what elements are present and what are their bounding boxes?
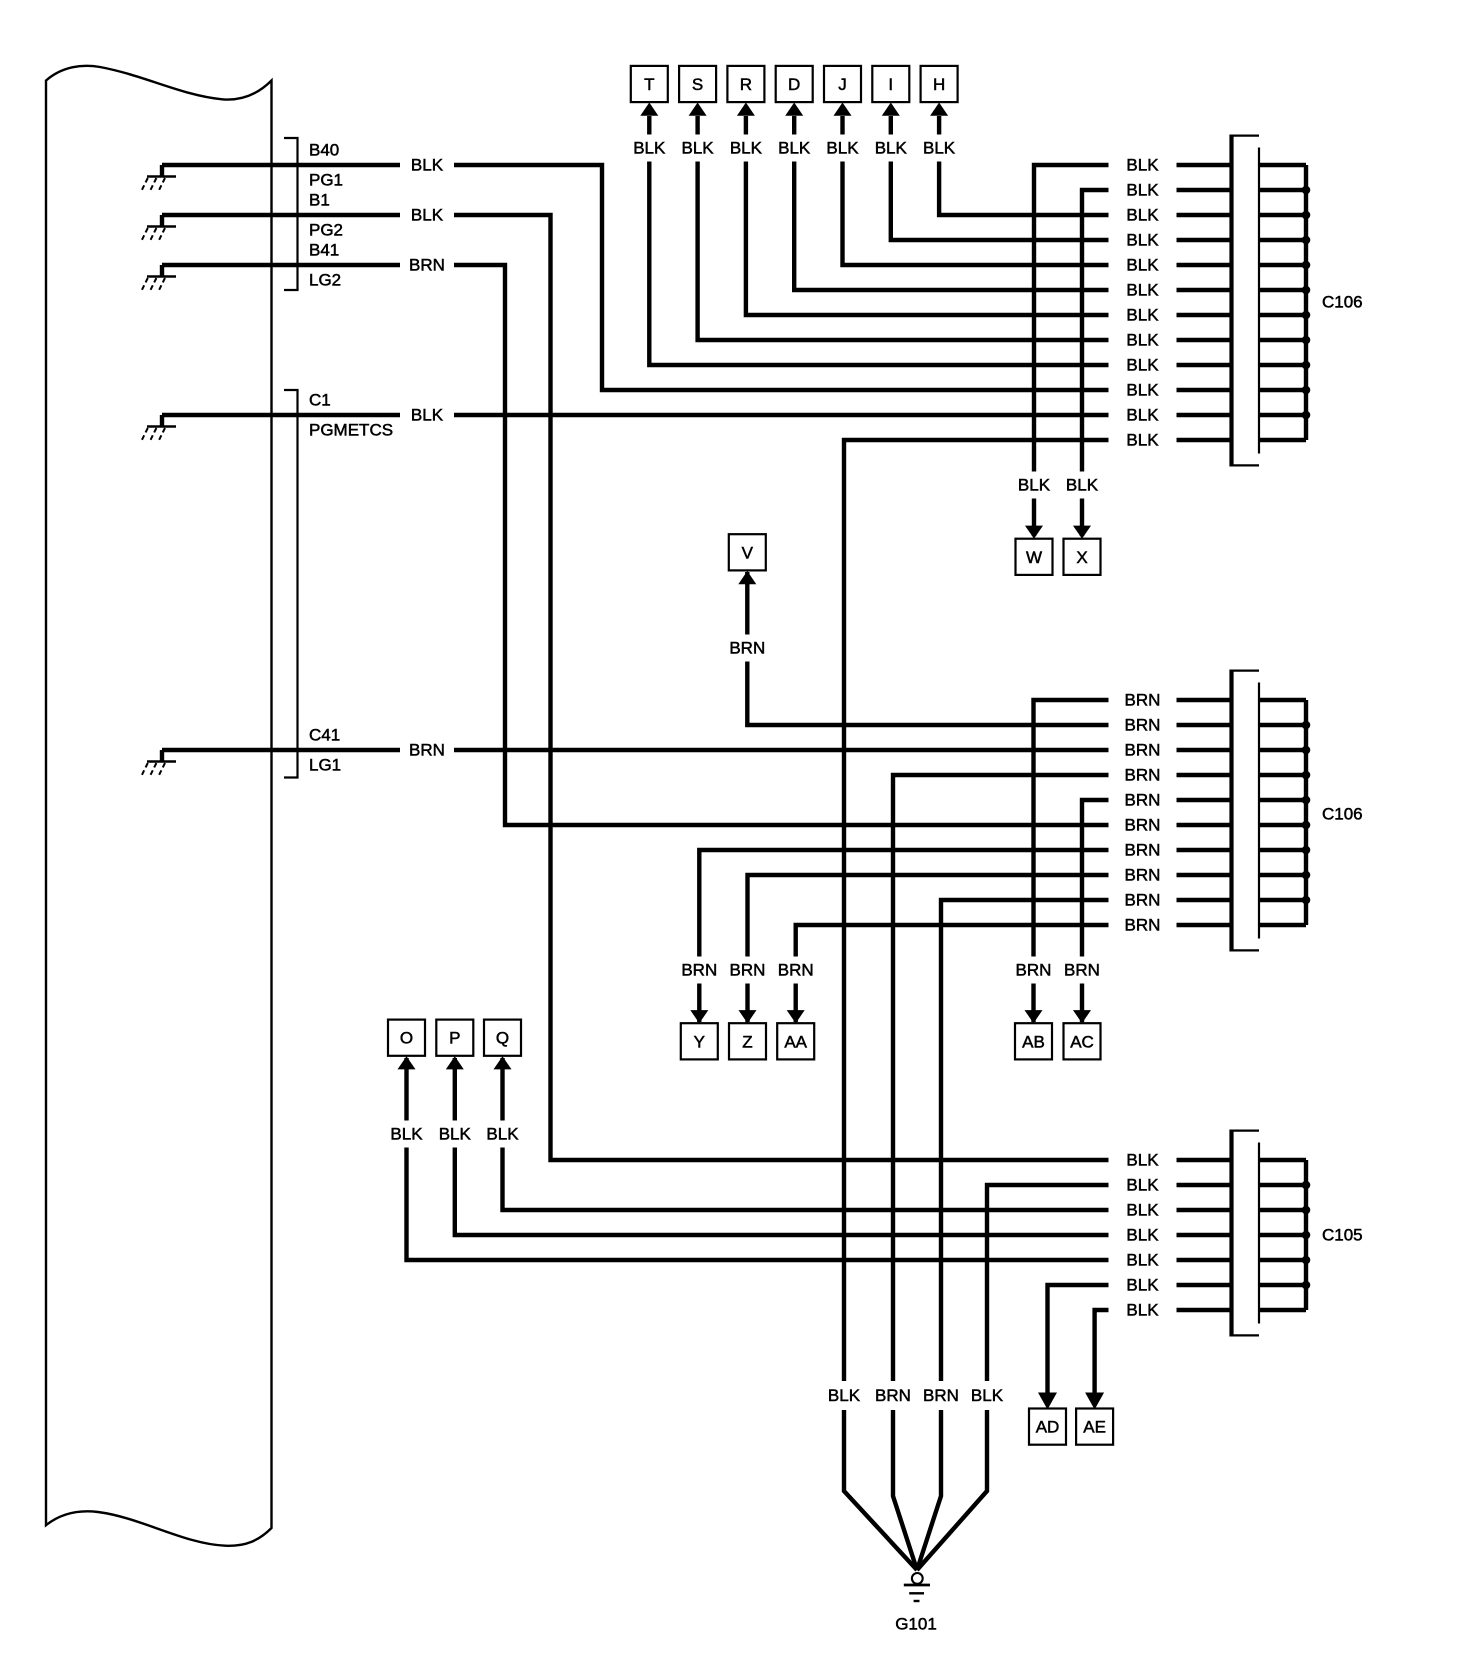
svg-text:BLK: BLK [1126, 431, 1159, 450]
svg-text:BLK: BLK [1126, 331, 1159, 350]
svg-text:BLK: BLK [1126, 306, 1159, 325]
svg-text:BLK: BLK [1126, 356, 1159, 375]
svg-text:BLK: BLK [390, 1125, 423, 1144]
svg-text:BLK: BLK [1018, 476, 1051, 495]
svg-text:BLK: BLK [1066, 476, 1099, 495]
svg-text:BRN: BRN [1064, 961, 1100, 980]
svg-text:S: S [692, 75, 703, 94]
svg-text:BLK: BLK [682, 139, 715, 158]
svg-text:BLK: BLK [778, 139, 811, 158]
svg-text:BLK: BLK [923, 139, 956, 158]
svg-text:BLK: BLK [1126, 1151, 1159, 1170]
svg-text:C106: C106 [1322, 293, 1363, 312]
svg-text:AA: AA [784, 1032, 807, 1051]
svg-text:BLK: BLK [1126, 1251, 1159, 1270]
svg-text:BLK: BLK [730, 139, 763, 158]
svg-text:D: D [788, 75, 800, 94]
svg-text:BLK: BLK [1126, 406, 1159, 425]
svg-text:BRN: BRN [1125, 891, 1161, 910]
svg-text:BLK: BLK [439, 1125, 472, 1144]
svg-text:BRN: BRN [875, 1386, 911, 1405]
svg-text:BRN: BRN [1125, 866, 1161, 885]
svg-text:BLK: BLK [1126, 1226, 1159, 1245]
svg-text:BLK: BLK [411, 406, 444, 425]
svg-text:C41: C41 [309, 726, 340, 745]
svg-text:BLK: BLK [1126, 231, 1159, 250]
svg-text:BLK: BLK [1126, 381, 1159, 400]
svg-text:BLK: BLK [826, 139, 859, 158]
svg-text:AD: AD [1036, 1418, 1060, 1437]
svg-text:BRN: BRN [778, 961, 814, 980]
svg-text:AC: AC [1070, 1032, 1094, 1051]
svg-text:PG2: PG2 [309, 221, 343, 240]
svg-text:T: T [644, 75, 654, 94]
svg-text:BLK: BLK [1126, 256, 1159, 275]
svg-text:PGMETCS: PGMETCS [309, 421, 393, 440]
svg-text:BLK: BLK [971, 1386, 1004, 1405]
svg-text:BLK: BLK [411, 156, 444, 175]
svg-text:BLK: BLK [1126, 1276, 1159, 1295]
svg-text:BRN: BRN [730, 961, 766, 980]
svg-text:Z: Z [742, 1032, 752, 1051]
svg-text:BRN: BRN [1125, 816, 1161, 835]
svg-text:W: W [1026, 548, 1042, 567]
svg-text:C1: C1 [309, 391, 331, 410]
svg-text:BRN: BRN [681, 961, 717, 980]
svg-text:BLK: BLK [486, 1125, 519, 1144]
svg-text:BLK: BLK [1126, 181, 1159, 200]
svg-text:I: I [888, 75, 893, 94]
svg-text:BLK: BLK [1126, 281, 1159, 300]
svg-text:BRN: BRN [1125, 741, 1161, 760]
svg-text:C106: C106 [1322, 805, 1363, 824]
svg-text:X: X [1076, 548, 1087, 567]
svg-text:LG2: LG2 [309, 271, 341, 290]
svg-text:BRN: BRN [1125, 716, 1161, 735]
svg-text:Y: Y [694, 1032, 705, 1051]
svg-text:BRN: BRN [409, 256, 445, 275]
svg-text:BRN: BRN [923, 1386, 959, 1405]
svg-text:G101: G101 [895, 1615, 937, 1634]
svg-text:J: J [838, 75, 847, 94]
svg-text:AB: AB [1022, 1032, 1045, 1051]
svg-text:BLK: BLK [633, 139, 666, 158]
svg-text:AE: AE [1083, 1418, 1106, 1437]
svg-text:O: O [400, 1029, 413, 1048]
svg-text:H: H [933, 75, 945, 94]
svg-text:BRN: BRN [1016, 961, 1052, 980]
svg-text:R: R [740, 75, 752, 94]
svg-text:V: V [742, 543, 754, 562]
svg-text:LG1: LG1 [309, 756, 341, 775]
svg-text:BRN: BRN [1125, 791, 1161, 810]
svg-text:PG1: PG1 [309, 171, 343, 190]
svg-text:BRN: BRN [1125, 691, 1161, 710]
svg-text:BLK: BLK [1126, 156, 1159, 175]
svg-text:BRN: BRN [729, 639, 765, 658]
svg-text:BRN: BRN [409, 741, 445, 760]
svg-text:BRN: BRN [1125, 916, 1161, 935]
svg-text:Q: Q [496, 1029, 509, 1048]
svg-text:BRN: BRN [1125, 841, 1161, 860]
svg-text:B1: B1 [309, 191, 330, 210]
svg-text:BLK: BLK [1126, 1301, 1159, 1320]
svg-text:B41: B41 [309, 241, 339, 260]
svg-text:BLK: BLK [875, 139, 908, 158]
svg-text:BLK: BLK [1126, 206, 1159, 225]
svg-text:P: P [449, 1029, 460, 1048]
svg-text:BLK: BLK [1126, 1176, 1159, 1195]
svg-text:BLK: BLK [828, 1386, 861, 1405]
svg-text:B40: B40 [309, 141, 339, 160]
svg-text:C105: C105 [1322, 1226, 1363, 1245]
svg-text:BLK: BLK [1126, 1201, 1159, 1220]
svg-text:BLK: BLK [411, 206, 444, 225]
svg-text:BRN: BRN [1125, 766, 1161, 785]
